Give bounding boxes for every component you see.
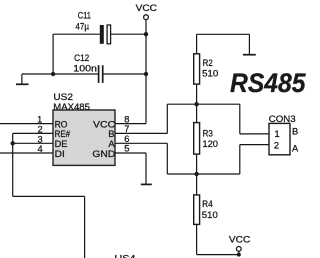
svg-text:B: B [108, 129, 114, 139]
wire C12 right to VCC line [103, 73, 146, 75]
wire rail to CON3 pin1 vertical [239, 104, 241, 134]
svg-text:CON3: CON3 [269, 114, 296, 124]
wire R4 top [196, 174, 198, 195]
wire CON3 pin2 [240, 144, 269, 146]
svg-text:5: 5 [124, 144, 129, 154]
ground GND2 bar [141, 183, 152, 185]
wire CON3 pin1 [240, 133, 269, 135]
svg-text:7: 7 [124, 124, 129, 134]
wire pin7 B [115, 132, 167, 134]
wire C11 left [53, 33, 100, 35]
svg-text:R2: R2 [203, 58, 213, 68]
svg-text:4: 4 [38, 144, 43, 154]
wire R2 vcc hook horizontal [197, 33, 250, 35]
svg-text:2: 2 [274, 141, 279, 151]
wire rail to CON3 pin2 vertical [239, 145, 241, 174]
svg-text:MAX485: MAX485 [53, 102, 90, 112]
svg-text:47µ: 47µ [75, 22, 89, 32]
svg-text:RS485: RS485 [230, 68, 307, 98]
wire R4 bottom [196, 224, 198, 254]
wire bottom VCC horizontal [197, 254, 239, 256]
svg-text:B: B [292, 127, 298, 137]
wire bottom rail node A [167, 173, 240, 175]
svg-text:R4: R4 [202, 199, 213, 209]
wire ground row to C12 [22, 73, 98, 75]
svg-text:US4: US4 [115, 254, 136, 258]
wire R2 vcc hook vertical [248, 34, 250, 54]
wire VCC vertical [145, 20, 147, 124]
ground GND1 bar [16, 83, 29, 85]
svg-text:R3: R3 [203, 128, 213, 138]
wire R2 bottom [196, 84, 198, 104]
connector CON3 body [269, 123, 290, 154]
wire R3 bottom [196, 154, 198, 174]
svg-text:1: 1 [37, 115, 42, 125]
wire B vertical up [166, 104, 168, 133]
capacitor C11 plate hollow [107, 25, 111, 44]
svg-text:120: 120 [202, 139, 218, 149]
svg-text:GND: GND [92, 149, 115, 159]
resistor R3 [194, 123, 200, 155]
svg-text:DE: DE [55, 139, 68, 149]
svg-text:3: 3 [38, 134, 43, 144]
svg-text:C11: C11 [78, 11, 91, 21]
IC US2 MAX485 body [53, 110, 115, 165]
svg-text:8: 8 [124, 114, 129, 124]
svg-text:A: A [108, 139, 115, 149]
svg-text:RO: RO [55, 120, 68, 130]
svg-text:6: 6 [124, 134, 129, 144]
wire to US4 vertical [84, 196, 86, 258]
wire pin5 gnd vertical [145, 153, 147, 184]
svg-text:RE#: RE# [55, 129, 71, 139]
svg-text:VCC: VCC [93, 120, 116, 130]
svg-text:US2: US2 [53, 92, 73, 102]
wire pin6 A [115, 142, 167, 144]
ground GND1 stub [21, 74, 23, 84]
VCC circle bottom [236, 247, 241, 252]
svg-text:C12: C12 [74, 53, 89, 63]
wire vertical C11 to ground row [52, 34, 54, 74]
svg-text:510: 510 [202, 210, 218, 220]
svg-text:DI: DI [55, 149, 65, 159]
capacitor C12 plate right [102, 65, 104, 83]
svg-text:VCC: VCC [136, 3, 158, 13]
svg-text:VCC: VCC [229, 234, 251, 244]
wire RE#/DE vertical [12, 133, 14, 196]
wire pin3 DE [13, 142, 53, 144]
wire C11 right to VCC line [111, 33, 146, 35]
svg-text:100n: 100n [73, 64, 97, 74]
svg-text:1: 1 [275, 129, 280, 139]
wire pin5 GND [115, 152, 146, 154]
wire A vertical down [166, 143, 168, 174]
resistor R4 [194, 195, 200, 225]
wire R2 top [196, 34, 198, 54]
junction node dots [144, 32, 148, 36]
svg-text:510: 510 [202, 69, 218, 79]
wire pin1 RO [0, 123, 53, 125]
wire pin4 DI [0, 152, 53, 154]
capacitor C12 plate left [98, 65, 100, 83]
wire bottom VCC stem [238, 251, 240, 254]
VCC bar top right [243, 54, 256, 56]
wire R3 top [196, 104, 198, 122]
resistor R2 [194, 54, 200, 84]
svg-text:A: A [292, 144, 299, 154]
wire pin8 [115, 123, 146, 125]
capacitor C11 plate filled [100, 25, 104, 44]
wire top rail node B [167, 103, 240, 105]
svg-text:2: 2 [38, 125, 43, 135]
wire to US4 horizontal [13, 195, 85, 197]
wire pin2 RE# [13, 132, 53, 134]
VCC circle top [144, 15, 149, 20]
